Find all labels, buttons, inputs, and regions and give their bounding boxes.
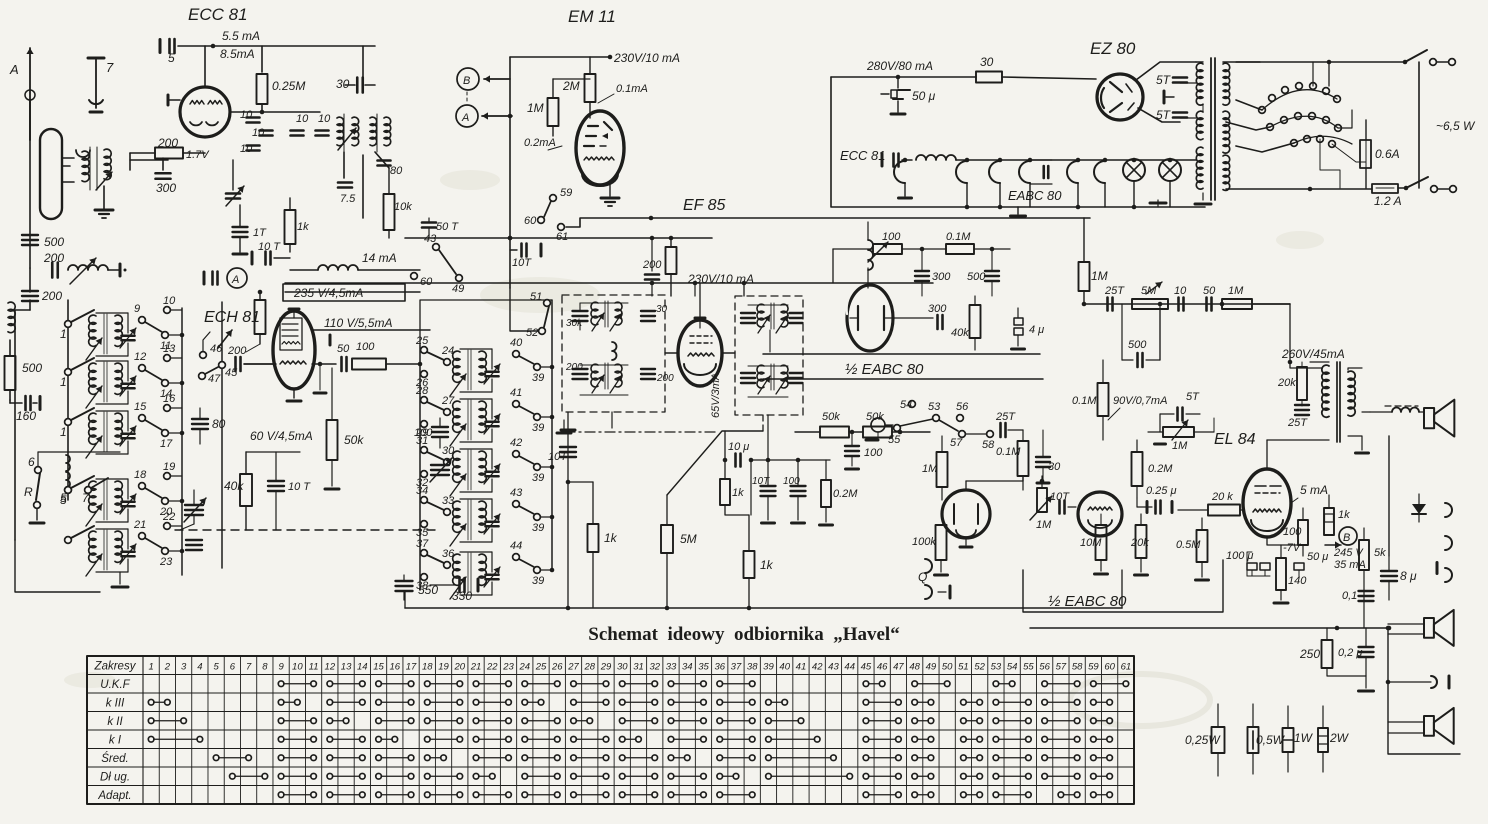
capacitor 0.25u	[1137, 485, 1177, 514]
heater 2	[956, 158, 969, 210]
svg-text:55: 55	[1023, 661, 1034, 672]
capacitor 200a	[43, 251, 64, 278]
IF2 cap a	[741, 313, 755, 323]
svg-text:25: 25	[535, 661, 547, 672]
resistor 1k el	[1324, 495, 1350, 535]
ecap 50u	[1294, 551, 1328, 577]
svg-text:ECC 81: ECC 81	[188, 5, 248, 24]
resistor 20k fb	[1277, 362, 1307, 406]
middle band switch bank	[419, 345, 421, 590]
tube EM11	[576, 111, 624, 186]
label 0.1mA	[598, 83, 648, 103]
svg-text:15: 15	[373, 661, 384, 672]
svg-text:57: 57	[950, 437, 963, 449]
svg-text:58: 58	[982, 439, 995, 451]
resistor 1M af	[922, 436, 948, 500]
svg-text:6: 6	[230, 661, 236, 672]
svg-text:1M: 1M	[527, 101, 544, 115]
heater 6	[1094, 158, 1107, 207]
svg-text:47: 47	[208, 373, 221, 385]
svg-text:1M: 1M	[1091, 269, 1108, 283]
resistor 0.1M drv	[1072, 360, 1109, 440]
svg-text:5.5 mA: 5.5 mA	[222, 29, 260, 43]
svg-text:3: 3	[181, 661, 187, 672]
svg-text:61: 61	[1121, 661, 1132, 672]
folded dipole	[40, 129, 70, 219]
svg-text:300: 300	[156, 181, 176, 195]
svg-text:1k: 1k	[297, 221, 309, 233]
table links row Adapt.	[278, 792, 1112, 798]
svg-text:61: 61	[556, 231, 568, 243]
svg-text:Zakresy: Zakresy	[94, 660, 137, 672]
contact 39 r1	[532, 364, 554, 384]
svg-text:5: 5	[168, 51, 175, 65]
svg-text:20: 20	[454, 661, 466, 672]
resistor 20k af	[1130, 514, 1149, 575]
wire ez to trafo top	[1136, 62, 1196, 80]
lever 34-33	[427, 495, 455, 515]
svg-text:0.5M: 0.5M	[1176, 539, 1201, 551]
svg-text:30: 30	[980, 55, 994, 69]
channel wires	[763, 354, 1043, 379]
label 8.5mA	[220, 47, 255, 61]
contact 35	[416, 521, 429, 539]
svg-text:13: 13	[163, 343, 176, 355]
svg-text:80: 80	[390, 165, 403, 177]
svg-text:7.5: 7.5	[340, 193, 356, 205]
svg-text:10k: 10k	[394, 201, 412, 213]
capacitor 10T ech	[268, 452, 311, 530]
contact 59	[550, 187, 573, 201]
svg-text:60 V/4,5mA: 60 V/4,5mA	[250, 429, 313, 443]
svg-text:5: 5	[213, 661, 219, 672]
svg-text:1M: 1M	[922, 463, 938, 475]
svg-text:Schemat ideowy odbiornika „: Schemat ideowy odbiornika „Havel“	[588, 624, 899, 645]
svg-text:21: 21	[133, 519, 146, 531]
label EABC80 h	[1008, 188, 1062, 203]
wire row1 bus	[168, 333, 184, 338]
contact 39 r5	[532, 567, 554, 587]
svg-text:50k: 50k	[822, 411, 840, 423]
resistor 50k a	[795, 411, 849, 438]
legend 0.5W	[1248, 704, 1286, 774]
capacitor 100 af	[845, 430, 883, 469]
coil 14mA	[290, 251, 420, 270]
resistor 140	[1274, 545, 1307, 603]
IF1 dashed box	[562, 295, 665, 412]
resistor 0.1M af	[996, 430, 1029, 490]
svg-text:0.2M: 0.2M	[833, 488, 858, 500]
svg-text:0,25W: 0,25W	[1185, 733, 1221, 747]
wire left col	[29, 268, 31, 292]
svg-text:1W: 1W	[1294, 731, 1314, 745]
pot 5M	[1132, 282, 1168, 309]
lamp 1	[1123, 158, 1145, 210]
resistor 10M	[1080, 514, 1108, 574]
contact 18	[134, 469, 147, 489]
wire to lower	[15, 300, 30, 540]
svg-text:60: 60	[420, 276, 433, 288]
capacitor 1T	[233, 205, 268, 254]
svg-text:58: 58	[1072, 661, 1083, 672]
contact 58	[965, 431, 995, 451]
contact 13	[163, 343, 182, 361]
wire mb top	[420, 300, 552, 345]
contact 39 r4	[532, 514, 554, 534]
contact 38	[416, 574, 429, 592]
label 5.5mA	[222, 29, 260, 43]
resistor 10k v	[384, 168, 413, 238]
svg-text:39: 39	[532, 575, 544, 587]
svg-text:0.1mA: 0.1mA	[616, 83, 648, 95]
jack conn mid	[1386, 676, 1449, 688]
svg-text:15: 15	[134, 401, 147, 413]
lever 31-30	[427, 445, 455, 465]
svg-text:6: 6	[28, 455, 35, 469]
contact 17	[160, 430, 173, 450]
label 1M r	[1228, 285, 1244, 297]
table links row k I	[148, 736, 1112, 742]
legend 0.25W	[1185, 704, 1225, 776]
svg-text:-7V: -7V	[1283, 542, 1302, 554]
IF1 cap b	[641, 304, 668, 321]
lever 9-11	[145, 322, 162, 332]
svg-text:R: R	[24, 485, 33, 499]
wire if2 int	[748, 305, 788, 397]
svg-text:10M: 10M	[1080, 537, 1102, 549]
capacitor 500 r	[1122, 304, 1160, 367]
wire osc down	[344, 152, 363, 218]
wire diag 5M	[667, 431, 763, 495]
svg-text:100: 100	[864, 447, 883, 459]
svg-text:10: 10	[318, 113, 331, 125]
tube EL84	[1243, 469, 1291, 537]
contact 57	[950, 431, 965, 449]
svg-text:200: 200	[656, 373, 674, 384]
svg-text:160: 160	[16, 409, 36, 423]
lever 12-14	[145, 370, 162, 380]
svg-text:110 V/5,5mA: 110 V/5,5mA	[324, 316, 392, 330]
wire bank bottom	[15, 540, 100, 592]
svg-text:9: 9	[134, 303, 140, 315]
svg-text:4: 4	[197, 661, 202, 672]
capacitor 100 c	[783, 460, 806, 523]
cathode tap	[1164, 91, 1174, 103]
resistor 1M r	[1222, 299, 1290, 309]
contact 44	[510, 540, 534, 567]
svg-text:48: 48	[909, 661, 920, 672]
svg-text:52: 52	[526, 327, 538, 339]
contact 60	[524, 201, 551, 227]
svg-text:53: 53	[928, 401, 941, 413]
contact 14	[160, 380, 172, 400]
contact 26	[415, 371, 429, 389]
contact 10	[163, 295, 182, 313]
jack Q2	[925, 585, 950, 599]
trafo secondary3	[1223, 155, 1230, 190]
svg-text:50 T: 50 T	[436, 221, 459, 233]
bottom group gnd	[112, 572, 128, 587]
resistor 50k b	[849, 411, 930, 438]
lever 21-23	[145, 538, 162, 548]
capacitor 7.5	[338, 183, 356, 206]
svg-text:200: 200	[41, 289, 62, 303]
svg-text:51: 51	[958, 661, 969, 672]
svg-text:1T: 1T	[253, 227, 267, 239]
IF2 coilpair bottom	[757, 364, 788, 394]
svg-text:10 μ: 10 μ	[728, 441, 749, 453]
svg-text:100: 100	[1283, 526, 1302, 538]
resistor 50k ech	[325, 368, 364, 489]
wire long 238	[405, 236, 712, 241]
band lever x row5	[65, 526, 94, 543]
svg-text:8: 8	[262, 661, 268, 672]
svg-text:10: 10	[292, 661, 303, 672]
capacitor 10d	[291, 113, 310, 136]
earth terminal 7	[88, 58, 114, 112]
label 0.2mA	[524, 137, 562, 150]
svg-text:0.25M: 0.25M	[272, 79, 305, 93]
tube EABC80	[847, 285, 893, 351]
svg-text:~6,5 W: ~6,5 W	[1436, 119, 1476, 133]
contact 43	[510, 487, 534, 514]
capacitor 200b	[22, 289, 62, 303]
svg-text:280V/80 mA: 280V/80 mA	[866, 59, 933, 73]
svg-text:B: B	[1343, 532, 1350, 544]
capacitor 10T a	[252, 241, 290, 265]
svg-text:10: 10	[252, 127, 265, 139]
contact 22	[162, 511, 182, 529]
antenna A	[9, 48, 35, 140]
wire 283 bus	[285, 281, 933, 286]
svg-text:47: 47	[893, 661, 904, 672]
svg-text:A: A	[231, 274, 239, 286]
wire IF1 return	[561, 412, 575, 607]
resistor 250	[1299, 628, 1366, 676]
contact 19	[163, 461, 182, 479]
capacitor 10c	[240, 143, 260, 155]
svg-text:5 mA: 5 mA	[1300, 483, 1328, 497]
wire long 218	[566, 216, 1090, 227]
IF1 coilpair bottom	[591, 363, 622, 393]
capacitor 0.1 el	[1342, 590, 1374, 602]
trafo secondary1	[1223, 63, 1230, 105]
svg-text:50: 50	[942, 661, 953, 672]
contact 15	[134, 401, 147, 421]
wire grid row	[230, 110, 320, 115]
capacitor 10T b	[510, 244, 541, 270]
svg-text:1: 1	[148, 661, 153, 672]
capacitor 50u	[881, 77, 936, 114]
resistor 0.5M	[1176, 518, 1209, 580]
band lever 1 row1	[60, 310, 94, 341]
capacitor 50 ech	[337, 343, 350, 371]
lever 37-36	[427, 548, 455, 568]
wire switch join	[1418, 62, 1420, 188]
psu box	[831, 77, 1205, 207]
capacitor 5T b	[1156, 108, 1196, 122]
svg-text:10T: 10T	[548, 451, 568, 463]
lever 25-24	[427, 345, 454, 365]
heater 3	[989, 158, 1002, 210]
svg-text:20k: 20k	[1277, 377, 1296, 389]
svg-text:Adapt.: Adapt.	[97, 790, 131, 802]
tuned circuit group L1	[86, 313, 136, 360]
gnd varcap	[186, 540, 202, 550]
svg-text:26: 26	[551, 661, 563, 672]
resistor ech top	[255, 292, 266, 344]
svg-text:5T: 5T	[1186, 391, 1200, 403]
table links row U.K.F	[278, 681, 1128, 687]
svg-text:28: 28	[415, 385, 429, 397]
contact 28	[415, 385, 429, 403]
lever 15-17	[145, 420, 162, 430]
svg-text:10: 10	[1174, 285, 1187, 297]
contact 61	[556, 224, 568, 243]
svg-text:200: 200	[157, 136, 178, 150]
wire if2 tail	[744, 283, 770, 352]
svg-text:12: 12	[134, 351, 146, 363]
contact 32	[416, 471, 428, 489]
svg-text:49: 49	[926, 661, 937, 672]
capacitor 25T fb	[1287, 405, 1309, 429]
capacitor 200 ef	[642, 238, 662, 296]
svg-text:1M: 1M	[1228, 285, 1244, 297]
svg-text:10: 10	[163, 295, 176, 307]
svg-text:0.25 μ: 0.25 μ	[1146, 485, 1177, 497]
svg-text:5T: 5T	[1156, 73, 1172, 87]
contact 16	[163, 393, 182, 411]
svg-text:22: 22	[486, 661, 498, 672]
wire row2 bus	[168, 381, 184, 386]
svg-text:38: 38	[747, 661, 758, 672]
capacitor 10a	[240, 109, 260, 123]
contact 39 r2	[532, 414, 554, 434]
svg-text:53: 53	[991, 661, 1002, 672]
title Schemat ideowy odbiornika Havel	[588, 624, 899, 645]
resistor 5k	[1359, 528, 1386, 600]
tube ECC81	[168, 87, 230, 137]
tuned circuit group M2	[450, 399, 500, 446]
label ECC81 h	[840, 148, 886, 163]
speaker br2	[1388, 708, 1454, 744]
svg-text:10: 10	[296, 113, 309, 125]
svg-text:14: 14	[357, 661, 368, 672]
svg-text:23: 23	[502, 661, 514, 672]
svg-text:1M: 1M	[1036, 519, 1052, 531]
svg-text:51: 51	[530, 291, 542, 303]
capacitor 10T af	[1050, 491, 1076, 514]
svg-text:k III: k III	[106, 697, 125, 709]
capacitor 10T c	[752, 415, 776, 523]
svg-text:1.2 A: 1.2 A	[1374, 194, 1402, 208]
label ECH 81	[204, 309, 260, 326]
tuned circuit group M4	[450, 499, 500, 546]
cap 10 r	[1179, 298, 1184, 311]
svg-text:12: 12	[325, 661, 336, 672]
switch top	[1403, 50, 1456, 65]
svg-text:1: 1	[60, 375, 67, 389]
contact 12	[134, 351, 146, 371]
wire row4 bus	[168, 499, 184, 504]
IF1 cap c	[565, 362, 588, 379]
svg-text:200: 200	[43, 251, 64, 265]
pot 100 disc	[868, 231, 902, 262]
svg-text:2W: 2W	[1329, 731, 1350, 745]
svg-text:30k: 30k	[566, 318, 583, 329]
svg-text:0.1M: 0.1M	[1072, 395, 1097, 407]
IF1 coilpair top	[591, 301, 622, 331]
capacitor 300 disc	[915, 271, 951, 283]
wire drv grid	[1160, 414, 1214, 432]
capacitor 25T af	[995, 411, 1023, 437]
svg-text:5: 5	[60, 491, 67, 505]
svg-text:1M: 1M	[1172, 440, 1188, 452]
svg-text:90V/0,7mA: 90V/0,7mA	[1113, 395, 1167, 407]
svg-text:41: 41	[510, 387, 522, 399]
heater 1	[894, 158, 912, 198]
band lever 5 row4	[60, 476, 94, 507]
svg-text:59: 59	[1088, 661, 1099, 672]
svg-text:1k: 1k	[760, 558, 774, 572]
contact 55b	[888, 425, 901, 446]
svg-text:18: 18	[134, 469, 147, 481]
svg-text:22: 22	[162, 511, 175, 523]
switch bottom	[1404, 177, 1457, 192]
resistor 1M em	[527, 79, 590, 136]
svg-text:5T: 5T	[1156, 108, 1172, 122]
svg-text:36: 36	[714, 661, 725, 672]
svg-text:10: 10	[240, 109, 253, 121]
svg-text:200: 200	[565, 362, 583, 373]
svg-text:100: 100	[783, 476, 800, 487]
tuned circuit group L4	[86, 479, 136, 526]
wire 110V line	[312, 316, 430, 345]
contact 21	[133, 519, 146, 539]
middle bank right bus	[551, 300, 553, 570]
resistor 1M vert	[1079, 218, 1108, 304]
contact 40	[510, 337, 534, 364]
svg-text:39: 39	[532, 372, 544, 384]
resistor 200h	[130, 136, 210, 161]
svg-text:34: 34	[416, 485, 428, 497]
capacitor 10T bot	[548, 447, 576, 463]
svg-text:A: A	[461, 112, 469, 124]
contact 39 r3	[532, 464, 554, 484]
IF1 coupling coil	[612, 342, 617, 360]
svg-text:39: 39	[532, 472, 544, 484]
sec coil right	[370, 114, 391, 152]
svg-text:57: 57	[1056, 661, 1067, 672]
wire ech grid	[244, 363, 273, 365]
wire ot sec	[1267, 362, 1369, 453]
svg-text:14 mA: 14 mA	[362, 251, 397, 265]
lever 47-45	[205, 362, 238, 379]
svg-text:500: 500	[1128, 339, 1147, 351]
capacitor 10e	[316, 113, 332, 136]
svg-text:5M: 5M	[680, 532, 697, 546]
svg-text:13: 13	[341, 661, 352, 672]
svg-text:50 μ: 50 μ	[912, 89, 936, 103]
svg-text:60: 60	[1104, 661, 1115, 672]
svg-text:19: 19	[438, 661, 449, 672]
jack p1	[1445, 503, 1452, 517]
box 235V	[283, 284, 405, 301]
svg-text:44: 44	[844, 661, 855, 672]
selector levers	[1226, 62, 1352, 152]
svg-text:40: 40	[510, 337, 523, 349]
svg-text:25T: 25T	[995, 411, 1016, 423]
